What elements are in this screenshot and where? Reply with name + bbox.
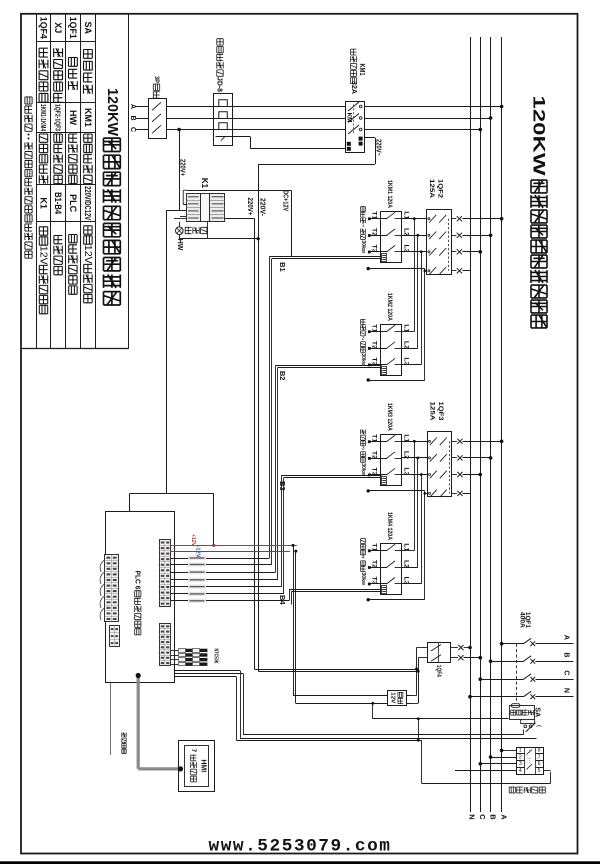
svg-text:1QF2-1QF3: 1QF2-1QF3 — [54, 104, 63, 131]
svg-text:3: 3 — [519, 761, 522, 767]
svg-text:1QF4: 1QF4 — [39, 17, 49, 39]
svg-text:www.5253079.com: www.5253079.com — [209, 837, 392, 857]
svg-text:B3: B3 — [278, 481, 287, 491]
svg-text:1QF1: 1QF1 — [68, 17, 78, 39]
svg-text:NTC50K: NTC50K — [213, 649, 219, 664]
svg-text:JD-8: JD-8 — [216, 77, 225, 92]
svg-text:1: 1 — [519, 748, 522, 754]
svg-text:4: 4 — [361, 555, 364, 561]
svg-text:1: 1 — [361, 223, 364, 229]
svg-text:30kw: 30kw — [360, 240, 366, 253]
svg-text:1KM4 120A: 1KM4 120A — [386, 512, 393, 540]
svg-text:L2: L2 — [402, 451, 409, 460]
svg-text:A: A — [129, 104, 136, 109]
svg-text:12V: 12V — [38, 246, 50, 265]
svg-text:XJ: XJ — [53, 22, 63, 33]
svg-text:1KM1 120A: 1KM1 120A — [386, 180, 393, 208]
svg-text:N: N — [563, 688, 570, 693]
svg-text:1KM3 120A: 1KM3 120A — [386, 403, 393, 431]
svg-text:KM: KM — [346, 113, 353, 123]
svg-text:C: C — [478, 814, 487, 820]
svg-text:A: A — [499, 814, 508, 820]
svg-text:HW: HW — [176, 239, 183, 251]
svg-text:HMI: HMI — [199, 759, 206, 772]
svg-text:7: 7 — [538, 754, 541, 760]
svg-text:-12V: -12V — [195, 546, 201, 559]
svg-text:125A: 125A — [428, 179, 435, 198]
svg-text:C: C — [129, 127, 136, 132]
svg-text:1QF3: 1QF3 — [437, 402, 444, 421]
svg-text:3: 3 — [361, 446, 364, 452]
svg-text:220V+: 220V+ — [246, 198, 253, 216]
svg-text:B2: B2 — [278, 371, 287, 381]
svg-text:1QF2: 1QF2 — [437, 179, 444, 198]
svg-text:220V+: 220V+ — [179, 159, 186, 176]
svg-text:B1: B1 — [278, 262, 287, 272]
svg-text:120KW: 120KW — [104, 88, 120, 136]
svg-text:220V/DC12V: 220V/DC12V — [83, 186, 93, 220]
svg-text:HW: HW — [68, 110, 78, 125]
svg-text:5: 5 — [538, 768, 541, 774]
svg-text:32A: 32A — [350, 81, 357, 94]
svg-text:SA: SA — [83, 22, 93, 35]
svg-text:N: N — [468, 814, 477, 819]
svg-text:3P: 3P — [153, 76, 160, 83]
svg-text:7: 7 — [190, 749, 197, 753]
svg-text:400A: 400A — [518, 612, 525, 628]
svg-text:PLC 6: PLC 6 — [133, 571, 142, 590]
svg-text:KM1: KM1 — [83, 108, 93, 127]
svg-text:1QF4: 1QF4 — [435, 665, 442, 677]
svg-text:220V-: 220V- — [258, 198, 265, 217]
svg-text:125A: 125A — [429, 402, 436, 421]
svg-text:12V: 12V — [390, 692, 396, 703]
svg-text:1KM1-1KM4: 1KM1-1KM4 — [39, 104, 48, 132]
svg-text:B: B — [488, 814, 497, 820]
svg-text:8: 8 — [538, 748, 541, 754]
svg-text:2: 2 — [361, 336, 364, 342]
svg-text:6: 6 — [538, 761, 541, 767]
svg-text:12V: 12V — [82, 245, 94, 264]
svg-text:B: B — [563, 652, 570, 657]
svg-text:A: A — [563, 635, 570, 640]
svg-text:PLC: PLC — [68, 194, 78, 213]
svg-text:220V~: 220V~ — [374, 139, 381, 156]
svg-text:1KM2 120A: 1KM2 120A — [386, 293, 393, 321]
svg-text:120KW: 120KW — [530, 96, 549, 177]
svg-text:B1-B4: B1-B4 — [53, 192, 63, 214]
svg-text:30kw: 30kw — [360, 353, 366, 366]
svg-text:K1: K1 — [200, 178, 209, 189]
svg-text:30kw: 30kw — [360, 572, 366, 585]
svg-text:2: 2 — [519, 754, 522, 760]
svg-text:K1: K1 — [39, 197, 49, 209]
svg-text:C: C — [563, 670, 570, 675]
svg-text:4: 4 — [519, 768, 522, 774]
svg-text:KM1: KM1 — [358, 64, 367, 76]
svg-text:30kw: 30kw — [360, 463, 366, 476]
svg-text:SA: SA — [534, 707, 541, 717]
svg-text:B: B — [129, 115, 136, 120]
svg-text:DC+12V: DC+12V — [282, 190, 289, 211]
